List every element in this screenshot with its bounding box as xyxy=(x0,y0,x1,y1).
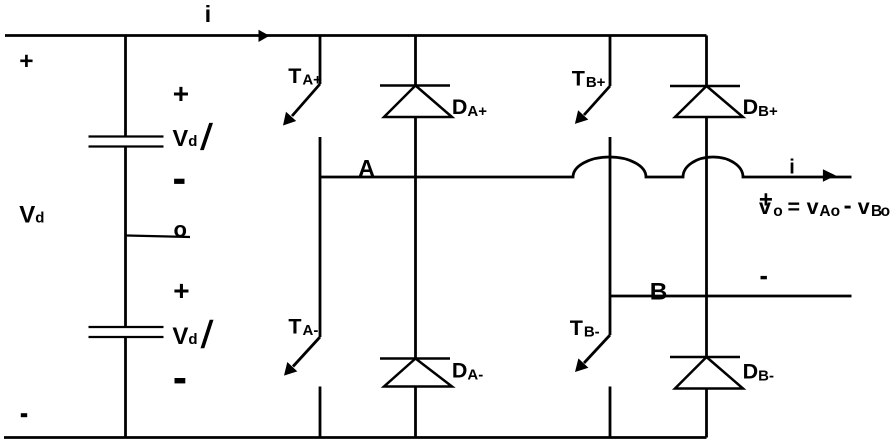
wire: left DC rail middle segment xyxy=(124,147,127,328)
svg-text:+: + xyxy=(173,78,189,109)
label: Vd/ (C2 value Vd/2) xyxy=(172,320,213,350)
svg-text:v: v xyxy=(807,195,819,219)
svg-text:Ao: Ao xyxy=(819,203,840,220)
wire: leg A bottom vertical xyxy=(319,387,322,438)
wire: diode leg A bottom vertical xyxy=(414,387,417,438)
svg-text:=: = xyxy=(788,195,801,219)
svg-text:A: A xyxy=(358,155,375,181)
capacitor C2 (lower half of DC link) xyxy=(89,327,164,337)
svg-text:B: B xyxy=(650,279,668,306)
wire: diode leg B bottom vertical xyxy=(705,389,708,438)
svg-text:v: v xyxy=(759,195,771,219)
wire: leg A mid vertical (T_A+ to T_A-) through node A xyxy=(319,137,322,337)
svg-text:+: + xyxy=(173,275,189,306)
arrowhead: input current i on top bus xyxy=(259,30,270,42)
wire: bottom DC bus xyxy=(4,436,707,439)
wire: top DC bus xyxy=(5,34,707,37)
label: - (C2 polarity) xyxy=(175,378,186,383)
svg-text:+: + xyxy=(19,48,33,75)
capacitor C1 (upper half of DC link) xyxy=(89,137,164,147)
wire: diode leg A mid vertical crossing node A wire xyxy=(414,117,417,359)
svg-text:o: o xyxy=(773,203,782,220)
label: vo = vAo - vBo (output voltage equation) xyxy=(759,193,890,221)
diode D_A+ (upper freewheeling diode, leg A) xyxy=(380,36,452,118)
wire: left DC rail upper segment xyxy=(124,36,127,137)
wire: node A output wire with two crossover hops xyxy=(320,157,852,177)
wire: node B output wire xyxy=(610,295,852,298)
wire: left DC rail lower segment xyxy=(124,337,127,438)
svg-text:-: - xyxy=(844,193,852,220)
svg-text:v: v xyxy=(858,195,870,219)
diode D_A- (lower freewheeling diode, leg A) xyxy=(380,359,452,387)
switch T_B+ (upper switch, leg B) xyxy=(575,36,610,124)
svg-text:o: o xyxy=(881,203,890,220)
svg-text:i: i xyxy=(205,1,212,27)
label: - (output voltage polarity) xyxy=(761,276,767,279)
switch T_B- (lower switch, leg B) xyxy=(575,335,610,372)
svg-text:i: i xyxy=(789,157,795,179)
wire: leg B mid vertical (passes under hop of node A wire, joins node B) xyxy=(609,137,612,335)
label: - (DC bus negative terminal) xyxy=(21,413,27,417)
diode D_B+ (upper freewheeling diode, leg B) xyxy=(670,36,743,118)
diode D_B- (lower freewheeling diode, leg B) xyxy=(670,357,743,389)
svg-text:o: o xyxy=(174,217,187,242)
wire: leg B bottom vertical xyxy=(609,387,612,438)
wire: diode leg B mid vertical (passes under hop, crosses node B wire) xyxy=(705,117,708,357)
switch T_A- (lower switch, leg A) xyxy=(284,337,320,376)
label: Vd/ (C1 value Vd/2) xyxy=(173,123,214,151)
node o (DC midpoint tap) xyxy=(126,217,191,242)
label: - (C1 polarity) xyxy=(174,179,184,184)
arrowhead: output current i on node A wire xyxy=(823,169,836,181)
switch T_A+ (upper switch, leg A) xyxy=(283,36,320,126)
